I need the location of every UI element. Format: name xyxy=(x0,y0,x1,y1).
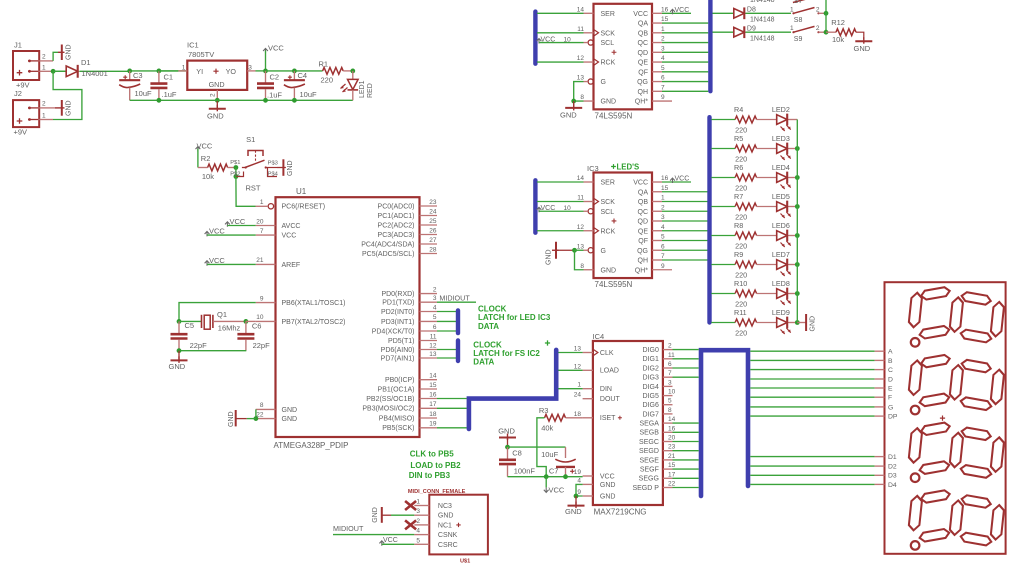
IC IC3 74LS595N xyxy=(587,164,652,289)
svg-text:MAX7219CNG: MAX7219CNG xyxy=(594,508,647,517)
label CLOCK LATCH for FS IC2 DATA xyxy=(473,340,550,366)
svg-text:13: 13 xyxy=(574,346,582,353)
U1 pin 3 PD1(TXD) xyxy=(382,295,437,307)
IC4 pin 9 GND xyxy=(577,489,615,500)
svg-text:DIN to PB3: DIN to PB3 xyxy=(409,471,451,480)
wire bus to display B xyxy=(750,359,874,361)
svg-text:220: 220 xyxy=(321,76,334,85)
svg-text:QF: QF xyxy=(638,238,648,245)
capacitor C3 10uF xyxy=(119,71,152,100)
svg-text:220: 220 xyxy=(735,184,747,193)
svg-text:VCC: VCC xyxy=(209,227,225,236)
IC2 pin 2 QC xyxy=(638,36,666,48)
svg-text:LED1: LED1 xyxy=(359,80,366,98)
U$1 pin 3 GND xyxy=(414,508,453,520)
svg-text:22: 22 xyxy=(668,481,676,488)
svg-text:12: 12 xyxy=(429,342,437,349)
svg-text:QA: QA xyxy=(638,189,648,196)
svg-text:GND: GND xyxy=(169,362,186,371)
svg-text:C: C xyxy=(888,367,893,374)
svg-text:220: 220 xyxy=(735,300,747,309)
svg-text:1: 1 xyxy=(661,26,665,33)
net MIDIOUT (U1 pin3) xyxy=(437,294,476,303)
svg-text:GND: GND xyxy=(601,99,617,106)
J1 pin 2 wire xyxy=(39,52,58,61)
svg-text:YO: YO xyxy=(226,67,237,76)
wire IC3 G/GND xyxy=(572,248,583,270)
svg-text:220: 220 xyxy=(735,329,747,338)
svg-text:R9: R9 xyxy=(734,250,743,259)
svg-text:1N4148: 1N4148 xyxy=(750,17,775,24)
svg-text:QF: QF xyxy=(638,69,648,76)
IC2 pin 3 QD xyxy=(638,45,666,57)
svg-text:74LS595N: 74LS595N xyxy=(595,111,633,120)
svg-text:VCC: VCC xyxy=(268,44,284,53)
svg-text:PB2(SS/OC1B): PB2(SS/OC1B) xyxy=(366,396,414,403)
IC2 pin 10 SCL xyxy=(584,40,615,47)
ground GND (J2) xyxy=(55,100,73,116)
svg-text:PC3(ADC3): PC3(ADC3) xyxy=(378,232,415,239)
resistor R5 220 xyxy=(711,134,776,163)
svg-text:10uF: 10uF xyxy=(135,89,153,98)
svg-text:16: 16 xyxy=(661,6,669,13)
display pin D3 xyxy=(875,473,897,480)
svg-text:14: 14 xyxy=(577,6,585,13)
wire IC4 SEGF to bus xyxy=(673,468,699,470)
IC4 pin 12 LOAD xyxy=(574,363,619,374)
capacitor C5 22pF xyxy=(171,321,208,351)
svg-text:15: 15 xyxy=(661,185,669,192)
diode D1 1N4001 xyxy=(53,58,130,78)
wire IC4 SEGE to bus xyxy=(673,459,699,461)
node junction C2 xyxy=(263,69,268,74)
ground GND (R12) xyxy=(854,37,873,53)
svg-text:10k: 10k xyxy=(832,35,844,44)
node junction C2 bottom xyxy=(263,98,268,103)
svg-text:6: 6 xyxy=(661,75,665,82)
U1 pin 27 PC4(ADC4/SDA) xyxy=(361,237,437,249)
wire bus to IC4 LOAD xyxy=(558,369,582,371)
supply VCC (U1 pin21 AREF) xyxy=(205,256,256,266)
resistor R11 220 xyxy=(711,308,776,337)
svg-text:R11: R11 xyxy=(734,308,747,317)
U1 pin 23 PC0(ADC0) xyxy=(378,199,437,211)
wire bus to display D3 xyxy=(750,474,874,476)
display pin C xyxy=(875,367,893,374)
svg-text:DIG5: DIG5 xyxy=(643,393,659,400)
svg-text:GND: GND xyxy=(854,44,871,53)
display pin B xyxy=(875,358,893,365)
svg-text:15: 15 xyxy=(429,382,437,389)
IC2 pin 1 QB xyxy=(638,26,665,38)
wire IC4 DIG3 to bus xyxy=(673,376,699,378)
svg-text:R7: R7 xyxy=(734,192,743,201)
wire IC4 SEGB to bus xyxy=(673,431,699,433)
wire IC3 QF to bus xyxy=(662,240,708,242)
capacitor C7 10uF xyxy=(541,447,576,477)
svg-text:CLK to PB5: CLK to PB5 xyxy=(410,450,455,459)
wire IC3 QC to bus xyxy=(662,210,708,212)
svg-text:F: F xyxy=(888,395,892,402)
svg-text:C8: C8 xyxy=(512,449,522,458)
svg-text:PC1(ADC1): PC1(ADC1) xyxy=(378,213,415,220)
wire IC4 SEGC to bus xyxy=(673,441,699,443)
U1 pin 14 PB0(ICP) xyxy=(385,373,437,385)
node junction VCC drop xyxy=(544,474,549,479)
svg-text:15: 15 xyxy=(661,16,669,23)
switch S1 pushbutton xyxy=(230,135,278,178)
IC4 pin 24 DOUT xyxy=(574,392,621,403)
svg-text:PB6(XTAL1/TOSC1): PB6(XTAL1/TOSC1) xyxy=(282,300,346,307)
display digit 1 xyxy=(908,286,1004,346)
svg-text:P$3: P$3 xyxy=(268,160,278,166)
IC3 pin 5 QF xyxy=(638,234,665,246)
svg-text:2: 2 xyxy=(416,518,420,525)
wire bus to IC2 SCK xyxy=(537,32,584,34)
U1 pin 12 PD6(AIN0) xyxy=(381,342,437,354)
svg-text:GND: GND xyxy=(601,267,617,274)
wire bus to IC3 RCK xyxy=(537,230,584,232)
svg-text:R2: R2 xyxy=(201,154,211,163)
svg-text:D1: D1 xyxy=(81,58,91,67)
U1 pin 1 PC6(/RESET) xyxy=(256,199,326,211)
svg-text:17: 17 xyxy=(429,401,437,408)
svg-text:PD4(XCK/T0): PD4(XCK/T0) xyxy=(372,328,415,335)
IC4 pin 6 DIG2 xyxy=(643,361,673,372)
U1 pin 24 PC1(ADC1) xyxy=(378,208,437,220)
svg-text:SCL: SCL xyxy=(601,209,615,216)
svg-text:SCK: SCK xyxy=(601,30,616,37)
node junction S9/R12 xyxy=(824,30,829,35)
svg-text:SEGE: SEGE xyxy=(639,457,659,464)
switch S7 (partial) xyxy=(750,0,814,5)
wire IC3 QE to bus xyxy=(662,230,708,232)
node junction LED3 xyxy=(795,146,800,151)
wire IC3 QA to bus xyxy=(662,191,708,193)
wire bottom ground rail xyxy=(130,99,353,101)
svg-text:14: 14 xyxy=(429,373,437,380)
node junction LED8 xyxy=(795,291,800,296)
node junction C5/Q1 xyxy=(177,319,182,324)
svg-text:C1: C1 xyxy=(164,73,174,82)
svg-text:CSNK: CSNK xyxy=(438,532,458,539)
supply VCC (MIDI pin5) xyxy=(379,537,414,546)
IC3 pin 9 QH* xyxy=(635,263,672,275)
svg-text:2: 2 xyxy=(816,6,820,13)
svg-text:PD0(RXD): PD0(RXD) xyxy=(381,291,414,298)
display pin D xyxy=(875,376,893,383)
svg-text:7: 7 xyxy=(661,253,665,260)
svg-text:26: 26 xyxy=(429,227,437,234)
svg-text:17: 17 xyxy=(668,471,676,478)
svg-text:IC1: IC1 xyxy=(187,41,199,50)
wire IC3 QG to bus xyxy=(662,249,708,251)
svg-text:2: 2 xyxy=(42,54,46,61)
LED LED6 xyxy=(772,221,797,247)
node junction S8 xyxy=(824,11,829,16)
label CLOCK LATCH for LED IC3 DATA xyxy=(478,304,551,330)
display digit 2 xyxy=(908,354,1004,414)
svg-text:Q1: Q1 xyxy=(217,310,227,319)
svg-text:3: 3 xyxy=(661,45,665,52)
svg-text:S1: S1 xyxy=(246,135,255,144)
U1 pin 5 PD3(INT1) xyxy=(381,314,437,326)
svg-text:GND: GND xyxy=(282,407,298,414)
IC4 pin 17 SEGG xyxy=(639,471,676,482)
wire bus to display E xyxy=(750,387,874,389)
wire IC4 DIG0 to bus xyxy=(673,349,699,351)
U1 pin 25 PC2(ADC2) xyxy=(378,218,437,230)
svg-text:C7: C7 xyxy=(549,467,559,476)
U1 pin 26 PC3(ADC3) xyxy=(378,227,437,239)
ground GND (IC1) xyxy=(207,98,226,121)
ground GND (MIDI pin3) xyxy=(372,507,414,523)
bus segment (LED shift register) xyxy=(456,310,460,333)
svg-text:5: 5 xyxy=(433,314,437,321)
IC2 pin 16 VCC xyxy=(633,6,668,18)
svg-text:QC: QC xyxy=(638,40,649,47)
U1 pin 11 PD5(T1) xyxy=(388,333,437,345)
IC4 pin 19 VCC xyxy=(574,469,615,480)
svg-text:25: 25 xyxy=(429,218,437,225)
wire S8/S9 column xyxy=(825,0,827,32)
svg-text:12: 12 xyxy=(577,55,585,62)
IC4 pin 3 DIG4 xyxy=(643,379,673,390)
node junction C5 gnd xyxy=(177,348,182,353)
wire crystal ground xyxy=(179,350,246,352)
svg-text:SEGA: SEGA xyxy=(639,421,659,428)
svg-text:VCC: VCC xyxy=(633,180,648,187)
node junction LED9 xyxy=(795,320,800,325)
svg-text:VCC: VCC xyxy=(549,486,565,495)
svg-text:D: D xyxy=(888,376,893,383)
supply VCC (IC2 SCL) xyxy=(537,36,584,43)
IC3 pin 8 GND xyxy=(580,263,616,275)
svg-text:NC3: NC3 xyxy=(438,503,452,510)
svg-text:PC5(ADC5/SCL): PC5(ADC5/SCL) xyxy=(362,251,415,258)
svg-text:QG: QG xyxy=(637,79,648,86)
svg-text:11: 11 xyxy=(577,195,584,202)
svg-text:LED9: LED9 xyxy=(772,308,790,317)
U1 pin 17 PB3(MOSI/OC2) xyxy=(362,401,437,413)
svg-text:220: 220 xyxy=(735,271,747,280)
svg-text:GND: GND xyxy=(546,249,553,265)
svg-text:NC1: NC1 xyxy=(438,522,452,529)
display origin cross xyxy=(940,416,945,421)
IC4 pin 23 SEGD xyxy=(639,444,676,455)
wire LED cathode rail xyxy=(796,120,798,323)
ground GND (S1) xyxy=(277,159,294,176)
IC4 pin 14 SEGA xyxy=(639,416,675,427)
svg-text:PD7(AIN1): PD7(AIN1) xyxy=(381,355,415,362)
U1 pin 4 PD2(INT0) xyxy=(381,304,437,316)
svg-text:7: 7 xyxy=(260,228,264,235)
IC2 pin 6 QG xyxy=(637,75,665,87)
J2 pin 2 wire to ground xyxy=(39,101,55,108)
svg-text:SEGD P: SEGD P xyxy=(632,485,659,492)
U1 pin 28 PC5(ADC5/SCL) xyxy=(362,246,437,258)
svg-text:GND: GND xyxy=(438,513,454,520)
svg-text:2: 2 xyxy=(42,101,46,108)
svg-text:DIG6: DIG6 xyxy=(643,402,659,409)
svg-text:10uF: 10uF xyxy=(541,450,559,459)
svg-text:QH: QH xyxy=(638,89,649,96)
wire bus to IC2 RCK xyxy=(537,61,584,63)
svg-text:QE: QE xyxy=(638,60,648,67)
svg-text:GND: GND xyxy=(209,80,225,89)
ground GND (LED array) xyxy=(797,314,816,332)
wire PD7 to bus xyxy=(437,357,456,359)
svg-text:13: 13 xyxy=(429,351,437,358)
wire bus to display D2 xyxy=(750,465,874,467)
IC4 pin 1 DIN xyxy=(577,382,612,393)
wire IC4 DIG2 to bus xyxy=(673,367,699,369)
svg-text:18: 18 xyxy=(429,411,437,418)
svg-text:R4: R4 xyxy=(734,105,743,114)
IC2 pin 4 QE xyxy=(638,55,665,67)
svg-text:16: 16 xyxy=(668,425,676,432)
svg-text:C3: C3 xyxy=(133,71,143,80)
svg-text:14: 14 xyxy=(577,175,585,182)
IC2 pin 7 QH xyxy=(638,84,666,96)
IC3 pin 11 SCK xyxy=(577,195,615,207)
svg-text:PD5(T1): PD5(T1) xyxy=(388,338,414,345)
IC4 pin 22 SEGDP xyxy=(632,481,675,492)
svg-text:PC2(ADC2): PC2(ADC2) xyxy=(378,222,415,229)
svg-text:DIG7: DIG7 xyxy=(643,411,659,418)
svg-text:D3: D3 xyxy=(888,473,897,480)
IC3 pin 2 QC xyxy=(638,204,666,216)
wire bus to display F xyxy=(750,396,874,398)
LED LED3 xyxy=(772,134,797,160)
wire PD6 to bus xyxy=(437,349,456,351)
svg-text:VCC: VCC xyxy=(209,256,225,265)
connector U$1 MIDI xyxy=(429,495,488,565)
wire IC2 QE to bus xyxy=(662,61,708,63)
svg-text:LED7: LED7 xyxy=(772,250,790,259)
IC2 pin 5 QF xyxy=(638,65,665,77)
svg-text:LED5: LED5 xyxy=(772,192,790,201)
node junction LED4 xyxy=(795,175,800,180)
svg-text:AVCC: AVCC xyxy=(282,223,301,230)
U1 pin 20 AVCC xyxy=(256,218,301,230)
svg-text:PB7(XTAL2/TOSC2): PB7(XTAL2/TOSC2) xyxy=(282,319,346,326)
bus right of IC2 xyxy=(708,0,712,91)
node junction C7 bottom xyxy=(563,474,568,479)
svg-text:D9: D9 xyxy=(747,25,756,32)
U$1 pin 4 CSNK xyxy=(414,528,457,540)
supply VCC (IC2 pin16) xyxy=(662,7,691,15)
label LED'S xyxy=(611,163,639,172)
svg-text:QB: QB xyxy=(638,30,648,37)
svg-text:2: 2 xyxy=(433,286,437,293)
svg-text:VCC: VCC xyxy=(633,11,648,18)
supply VCC (IC4) xyxy=(544,477,565,495)
U$1 pin 1 NC3 xyxy=(405,499,452,511)
svg-text:PD1(TXD): PD1(TXD) xyxy=(382,300,414,307)
node junction R1/LED1 xyxy=(350,69,355,74)
svg-text:S7: S7 xyxy=(794,0,803,5)
ground GND (U1 pins 8/22) xyxy=(228,409,258,427)
wire bus to display D xyxy=(750,378,874,380)
svg-text:LED6: LED6 xyxy=(772,221,790,230)
svg-text:1: 1 xyxy=(182,64,186,71)
svg-text:MIDIOUT: MIDIOUT xyxy=(333,524,364,533)
wire bus to display C xyxy=(750,369,874,371)
svg-text:R12: R12 xyxy=(831,18,845,27)
svg-text:LED2: LED2 xyxy=(772,105,790,114)
switch S9 xyxy=(790,25,826,43)
7-segment display module xyxy=(885,282,1006,554)
svg-text:14: 14 xyxy=(668,416,676,423)
wire PB5 to bus xyxy=(437,427,467,429)
IC4 pin 21 SEGE xyxy=(639,453,675,464)
svg-text:15: 15 xyxy=(668,462,676,469)
U1 pin 6 PD4(XCK/T0) xyxy=(372,324,437,336)
node junction C8 top xyxy=(505,445,510,450)
U1 pin 19 PB5(SCK) xyxy=(382,421,437,433)
svg-text:SCK: SCK xyxy=(601,199,616,206)
svg-text:20: 20 xyxy=(256,218,264,225)
wire C8/C7 top xyxy=(508,446,566,448)
svg-text:QD: QD xyxy=(638,219,649,226)
svg-text:GND: GND xyxy=(228,411,235,427)
IC IC2 74LS595N xyxy=(594,4,653,120)
IC2 pin 11 SCK xyxy=(577,26,615,38)
IC4 pin 20 SEGC xyxy=(639,435,676,446)
svg-text:3: 3 xyxy=(668,379,672,386)
svg-text:9: 9 xyxy=(260,295,264,302)
J1 pin 1 wire xyxy=(39,65,66,72)
wire PD3 to bus xyxy=(437,320,456,322)
U1 pin 7 VCC xyxy=(256,228,297,240)
svg-text:10k: 10k xyxy=(202,172,214,181)
IC U1 ATMEGA328P_PDIP xyxy=(274,187,420,450)
LED LED9 xyxy=(772,308,797,334)
wire bus to IC2 SER xyxy=(537,12,584,14)
svg-text:R6: R6 xyxy=(734,163,743,172)
svg-text:22pF: 22pF xyxy=(253,341,271,350)
IC3 pin 10 SCL xyxy=(584,209,615,216)
IC IC4 MAX7219CNG xyxy=(593,332,663,517)
svg-text:9: 9 xyxy=(661,263,665,270)
svg-text:LATCH for LED IC3: LATCH for LED IC3 xyxy=(478,313,551,322)
IC2 pin 12 RCK xyxy=(577,55,616,67)
connector J2 xyxy=(13,89,39,137)
svg-text:4: 4 xyxy=(577,477,581,484)
node junction C1 bottom xyxy=(157,98,162,103)
LED1 RED xyxy=(341,71,375,100)
svg-text:LOAD: LOAD xyxy=(600,368,619,375)
wire bus to IC4 CLK xyxy=(558,352,582,354)
U1 pin 13 PD7(AIN1) xyxy=(381,351,437,363)
svg-text:.1uF: .1uF xyxy=(162,90,177,99)
svg-text:QC: QC xyxy=(638,209,649,216)
capacitor C6 22pF xyxy=(237,321,270,350)
svg-text:J2: J2 xyxy=(14,89,22,98)
svg-text:1: 1 xyxy=(42,65,46,72)
svg-text:16: 16 xyxy=(429,391,437,398)
svg-text:18: 18 xyxy=(574,411,582,418)
svg-text:DIG2: DIG2 xyxy=(643,365,659,372)
svg-text:GND: GND xyxy=(287,160,294,176)
wire bus to display A xyxy=(750,350,874,352)
U1 pin 22 GND xyxy=(256,411,297,423)
IC3 pin 15 QA xyxy=(638,185,669,197)
op-amp IC1 7805TV regulator xyxy=(187,41,247,90)
IC4 pin 4 GND xyxy=(577,477,615,488)
svg-text:40k: 40k xyxy=(541,424,553,433)
